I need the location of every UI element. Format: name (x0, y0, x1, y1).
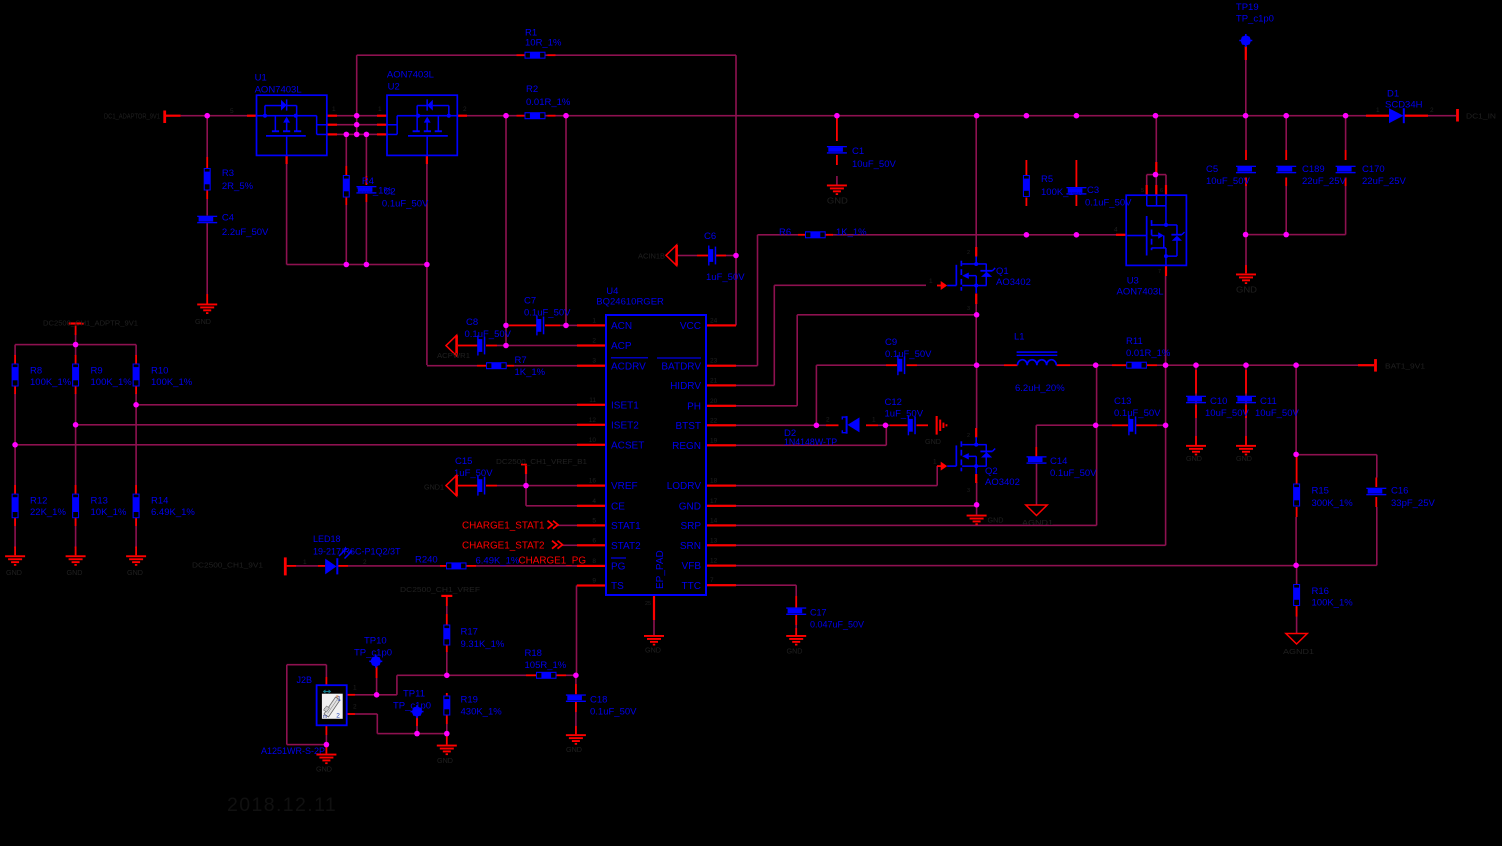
svg-text:0.1uF_50V: 0.1uF_50V (1050, 468, 1097, 479)
wire ACDRV row (427, 365, 477, 367)
svg-text:2: 2 (463, 106, 467, 113)
svg-text:17: 17 (710, 498, 718, 505)
svg-text:10R_1%: 10R_1% (525, 37, 562, 48)
wire SRP net (736, 525, 1097, 527)
svg-text:GND: GND (316, 765, 332, 774)
svg-text:EP_PAD: EP_PAD (655, 550, 666, 589)
svg-text:20: 20 (710, 398, 718, 405)
wire U1-U2 interconnect rows (337, 115, 377, 117)
wire HIDRV to Q1 gate (736, 385, 774, 387)
svg-text:1: 1 (929, 278, 933, 285)
wire red stubs R15 R16 C16 (1296, 457, 1298, 484)
wire ISET1 row (136, 404, 577, 406)
resistor R3 (204, 168, 211, 191)
wire red stubs C9 (886, 364, 897, 366)
svg-text:R18: R18 (525, 648, 542, 659)
port LED18 bar (284, 557, 287, 575)
wire BATDRV to R6 (736, 365, 758, 367)
svg-text:1uF_50V: 1uF_50V (454, 468, 493, 479)
port divider VREF (69, 322, 84, 324)
svg-text:C7: C7 (524, 296, 536, 307)
wire SRN net (736, 545, 1166, 547)
svg-text:U4: U4 (606, 286, 618, 297)
svg-text:R10: R10 (151, 365, 168, 376)
wire STAT2 lead (562, 545, 577, 547)
wire C9 bridge (816, 365, 818, 425)
wire red lead BAT port (1358, 364, 1374, 366)
svg-text:18: 18 (710, 478, 718, 485)
svg-text:14: 14 (710, 517, 718, 524)
ground AGND R16 (1286, 634, 1307, 645)
port DC IN (1456, 109, 1459, 122)
svg-text:J2B: J2B (297, 675, 313, 685)
wire red stubs C1 (836, 116, 838, 141)
svg-text:U3: U3 (1127, 275, 1139, 286)
resistor R10 (133, 364, 140, 387)
wire C189 branch (1285, 116, 1287, 150)
port ACIN1 arrow C6 (666, 245, 677, 266)
svg-text:U1: U1 (255, 73, 267, 84)
svg-text:R240: R240 (415, 554, 438, 565)
wire C13 row (1096, 425, 1112, 427)
wire red stubs R17 R19 (446, 614, 448, 625)
svg-text:4: 4 (592, 498, 596, 505)
svg-text:2: 2 (363, 559, 367, 566)
svg-text:1K_1%: 1K_1% (836, 227, 867, 238)
svg-text:C8: C8 (466, 317, 478, 328)
wire TP19 branch (1245, 46, 1247, 116)
capacitor C189 (1276, 166, 1296, 174)
wire ACP vertical from rail (505, 116, 507, 346)
resistor R240 (446, 562, 467, 569)
svg-text:GND: GND (6, 568, 22, 577)
svg-text:C5: C5 (1206, 164, 1218, 175)
wire TP11 stub (416, 715, 418, 734)
wire red stubs IC left (577, 324, 606, 326)
svg-text:C15: C15 (455, 456, 472, 467)
svg-text:C170: C170 (1362, 164, 1385, 175)
svg-text:AO3402: AO3402 (985, 477, 1020, 488)
capacitor C17 (786, 607, 806, 615)
svg-text:6.2uH_20%: 6.2uH_20% (1015, 383, 1065, 394)
svg-text:10: 10 (589, 437, 597, 444)
resistor R16 (1293, 584, 1300, 606)
wire red stubs L1 (1004, 364, 1018, 366)
svg-text:AON7403L: AON7403L (387, 69, 434, 80)
transistor U2 (387, 95, 457, 155)
svg-text:1N4148W-TP: 1N4148W-TP (784, 437, 837, 447)
svg-text:VFB: VFB (682, 561, 702, 572)
svg-text:0.01R_1%: 0.01R_1% (526, 97, 571, 108)
svg-text:GND: GND (787, 647, 803, 656)
ground C1 (827, 185, 847, 196)
svg-text:Q2: Q2 (985, 466, 998, 477)
ground C10 (1186, 445, 1206, 456)
wire TP10 stub (376, 666, 378, 694)
wire red stubs R6 (798, 234, 805, 236)
resistor R4 (343, 175, 350, 198)
svg-text:R11: R11 (1126, 336, 1143, 347)
wire PG row (296, 565, 318, 567)
wire red stubs D1 (1366, 115, 1389, 117)
svg-text:C3: C3 (1087, 185, 1099, 196)
svg-text:GND: GND (127, 568, 143, 577)
svg-text:C2: C2 (384, 186, 396, 197)
svg-text:22uF_25V: 22uF_25V (1362, 176, 1407, 187)
resistor R9 (72, 364, 79, 387)
wire red stubs C17 (795, 596, 797, 608)
wire R17 chain (446, 596, 448, 614)
svg-text:6.49K_1%: 6.49K_1% (476, 555, 520, 566)
wire U3 top bracket (1147, 174, 1166, 176)
svg-text:21: 21 (710, 377, 718, 384)
svg-text:CHARGE1_STAT1: CHARGE1_STAT1 (462, 521, 545, 532)
capacitor C4 (197, 216, 217, 224)
ground rotated C12 (936, 416, 948, 435)
wire red stubs R5 (1026, 160, 1028, 175)
wire R16 branch (1296, 565, 1298, 584)
wire C189 C170 gnd row (1246, 234, 1346, 236)
svg-text:U2: U2 (388, 81, 400, 92)
svg-text:8: 8 (592, 558, 596, 565)
capacitor C18 (566, 694, 586, 702)
wire J2B shield loop (287, 664, 327, 666)
svg-text:13: 13 (710, 537, 718, 544)
wire BTST row (736, 425, 826, 427)
svg-text:AGND1: AGND1 (1283, 647, 1314, 656)
svg-text:DC2500_CH1_9V1: DC2500_CH1_9V1 (192, 561, 263, 570)
wire Q2 drain (976, 365, 978, 428)
svg-text:1: 1 (337, 696, 341, 703)
ground R13 (66, 555, 86, 566)
wire ACP row (497, 345, 577, 347)
wire red stub VREF T (446, 596, 448, 606)
svg-text:430K_1%: 430K_1% (461, 706, 503, 717)
wire Q1 source to PH node (975, 304, 977, 315)
svg-text:R5: R5 (1041, 174, 1053, 185)
svg-text:CHARGE1_STAT2: CHARGE1_STAT2 (462, 541, 545, 552)
svg-text:GND: GND (827, 197, 848, 206)
wire ACN vertical from rail (565, 116, 567, 326)
svg-text:C18: C18 (590, 694, 607, 705)
svg-text:GND: GND (1186, 454, 1202, 463)
svg-text:0.1uF_50V: 0.1uF_50V (1114, 408, 1161, 419)
svg-text:m: m (323, 714, 328, 720)
wire red stubs TP19 (1245, 46, 1247, 60)
wire red stubs C10 (1195, 370, 1197, 394)
resistor R14 (133, 494, 140, 519)
ground C4 R3 (197, 304, 217, 315)
wire red stubs R8-R14 (14, 355, 16, 364)
svg-text:1: 1 (1376, 107, 1380, 114)
wire red stubs J2B (347, 694, 355, 696)
svg-text:DC1_IN: DC1_IN (1466, 112, 1496, 121)
svg-text:C4: C4 (222, 213, 234, 224)
wire TTC to C17 (736, 584, 796, 586)
svg-text:22: 22 (710, 417, 718, 424)
testpoint TP19 (1241, 36, 1251, 46)
svg-text:1uF_50V: 1uF_50V (885, 408, 924, 419)
svg-text:0.01R_1%: 0.01R_1% (1126, 348, 1171, 359)
svg-text:TS: TS (611, 581, 624, 592)
svg-text:L1: L1 (1014, 331, 1025, 342)
wire divider top rail (15, 344, 136, 346)
svg-text:2: 2 (353, 703, 357, 710)
svg-text:5: 5 (230, 108, 234, 115)
wire R1 top net (356, 55, 358, 134)
svg-text:C189: C189 (1302, 164, 1325, 175)
svg-text:3: 3 (967, 306, 970, 312)
svg-text:SCD34H: SCD34H (1385, 100, 1423, 111)
wire red stub divider port (75, 326, 77, 336)
resistor R5 (1023, 175, 1030, 197)
svg-text:2: 2 (826, 417, 830, 424)
svg-text:22K_1%: 22K_1% (30, 507, 66, 518)
svg-text:AO3402: AO3402 (996, 277, 1031, 288)
capacitor C6 (708, 246, 716, 266)
svg-text:GND: GND (566, 745, 582, 754)
svg-text:ACN: ACN (611, 321, 632, 332)
svg-text:ACSET: ACSET (611, 440, 644, 451)
svg-text:C1: C1 (852, 146, 864, 157)
svg-text:DC2500_CH1_VREF: DC2500_CH1_VREF (400, 585, 481, 594)
svg-text:2: 2 (336, 713, 340, 720)
capacitor C14 (1027, 456, 1047, 464)
wire red stubs main rail (166, 115, 181, 117)
capacitor C13 (1128, 415, 1136, 435)
svg-text:TP19: TP19 (1236, 2, 1259, 13)
svg-text:100K_1%: 100K_1% (151, 377, 193, 388)
resistor R6 (805, 231, 826, 238)
wire R4 branch (346, 134, 348, 166)
svg-text:300K_1%: 300K_1% (1312, 498, 1354, 509)
svg-text:TP11: TP11 (403, 688, 425, 699)
svg-text:24: 24 (710, 317, 718, 324)
svg-text:GND: GND (925, 437, 941, 446)
capacitor C15 (477, 476, 485, 496)
svg-text:R19: R19 (461, 694, 478, 705)
wire red stubs C8 (458, 345, 478, 347)
wire red stubs EP pad (653, 595, 655, 620)
wire red stubs D2 C12 (826, 424, 839, 426)
ground C18 (566, 734, 586, 745)
svg-text:GND: GND (988, 516, 1004, 525)
wire J2B pin2 row (355, 713, 377, 715)
wire C170 branch (1345, 116, 1347, 150)
svg-text:ACP: ACP (611, 341, 632, 352)
wire PH net (736, 405, 797, 407)
svg-text:19-217/R6C-P1Q2/3T: 19-217/R6C-P1Q2/3T (313, 547, 401, 557)
svg-text:ISET2: ISET2 (611, 420, 639, 431)
testpoint TP11 (412, 707, 422, 717)
svg-text:C14: C14 (1050, 456, 1067, 467)
svg-text:9: 9 (592, 578, 596, 585)
wire C14 to AGND (1036, 464, 1038, 506)
wire red stubs C14 (1035, 447, 1037, 457)
svg-text:1: 1 (933, 459, 937, 466)
svg-text:100K_1%: 100K_1% (91, 377, 133, 388)
resistor R2 (525, 112, 546, 119)
svg-text:R12: R12 (30, 495, 47, 506)
svg-text:22uF_25V: 22uF_25V (1302, 176, 1347, 187)
svg-text:R17: R17 (461, 627, 478, 638)
svg-text:6: 6 (592, 537, 596, 544)
wire STAT1 lead (557, 525, 577, 527)
wire red stubs LED row (287, 565, 296, 567)
wire red stubs C7 (509, 325, 537, 327)
capacitor C2 (356, 186, 376, 194)
svg-text:BQ24610RGER: BQ24610RGER (596, 296, 664, 307)
svg-text:3: 3 (967, 488, 970, 494)
ground C5 (1236, 274, 1256, 285)
wire C5 branch (1245, 116, 1247, 150)
svg-text:ACDRV: ACDRV (611, 361, 646, 372)
wire main input rail (181, 115, 247, 117)
svg-text:2.2uF_50V: 2.2uF_50V (222, 227, 269, 238)
wire red stubs U1 U2 gates (286, 155, 288, 164)
svg-text:GND: GND (1236, 286, 1257, 295)
wire red stubs Q1 (975, 247, 977, 257)
resistor R17 (443, 625, 450, 646)
svg-text:ACIN1B: ACIN1B (638, 251, 665, 260)
ground AGND C14 (1026, 505, 1047, 516)
svg-text:6: 6 (1160, 188, 1163, 194)
wire ISET2 row (76, 424, 577, 426)
wire C18 branch (575, 675, 577, 694)
svg-text:GND: GND (645, 646, 661, 655)
svg-text:GND: GND (679, 501, 701, 512)
svg-text:9.31K_1%: 9.31K_1% (461, 639, 505, 650)
svg-text:GND: GND (1236, 454, 1252, 463)
svg-text:STAT2: STAT2 (611, 541, 641, 552)
testpoint TP10 (371, 656, 381, 666)
svg-text:R14: R14 (151, 495, 168, 506)
junction dots (204, 113, 210, 119)
svg-text:1: 1 (353, 685, 357, 692)
svg-text:1: 1 (872, 417, 876, 424)
wire red stubs Q2 (975, 428, 977, 438)
ground R19 (437, 745, 457, 756)
wire VFB row (736, 565, 1296, 567)
svg-text:11: 11 (589, 397, 596, 404)
svg-text:2: 2 (967, 433, 970, 439)
wire red stubs R11 (1112, 364, 1126, 366)
svg-text:TTC: TTC (682, 581, 701, 592)
wire red stubs C15 (458, 485, 478, 487)
resistor R11 (1126, 362, 1147, 369)
capacitor C16 (1366, 488, 1386, 496)
capacitor C9 (897, 355, 905, 375)
port R17 top bar (441, 595, 452, 597)
svg-text:R16: R16 (1312, 586, 1329, 597)
svg-text:GND: GND (195, 317, 211, 326)
transistor Q1 (937, 257, 995, 294)
svg-text:R15: R15 (1312, 485, 1329, 496)
svg-text:BAT1_9V1: BAT1_9V1 (1385, 362, 1425, 371)
svg-text:C16: C16 (1391, 485, 1408, 496)
svg-text:C11: C11 (1260, 396, 1277, 407)
wire C10 branch (1195, 365, 1197, 445)
capacitor C1 (827, 146, 847, 154)
capacitor C7 (536, 315, 544, 335)
svg-text:GND: GND (67, 568, 83, 577)
port DC adapter input (163, 111, 166, 124)
wire red stubs C5 C189 C170 (1245, 150, 1247, 160)
svg-text:2: 2 (967, 250, 970, 256)
wire TS net (576, 585, 579, 587)
diode D2 (842, 416, 859, 434)
ground J2B (316, 754, 336, 765)
svg-text:23: 23 (710, 358, 718, 365)
resistor R13 (72, 494, 79, 519)
capacitor C5 (1236, 166, 1256, 174)
svg-text:ACPWR1: ACPWR1 (437, 351, 470, 360)
wire red stubs R1 (517, 54, 525, 56)
svg-text:LED18: LED18 (313, 534, 341, 544)
svg-text:1uF_50V: 1uF_50V (706, 272, 745, 283)
svg-text:C6: C6 (704, 231, 716, 242)
svg-text:100K_1%: 100K_1% (30, 377, 72, 388)
svg-text:SRN: SRN (680, 541, 701, 552)
svg-text:STAT1: STAT1 (611, 521, 641, 532)
ground Q2 (967, 515, 987, 526)
port ACIN1 arrow (446, 335, 457, 356)
wire LODRV to Q2 gate (736, 485, 937, 487)
svg-text:0.1uF_50V: 0.1uF_50V (1085, 197, 1132, 208)
wire red stubs C18 (575, 684, 577, 694)
wire VCC vertical (735, 55, 737, 325)
svg-text:TP_c1p0: TP_c1p0 (393, 700, 431, 711)
svg-text:D1: D1 (1387, 88, 1399, 99)
svg-text:PH: PH (687, 401, 701, 412)
capacitor C11 (1236, 396, 1256, 404)
svg-text:16: 16 (589, 478, 597, 485)
ground C17 (786, 635, 806, 646)
wire red stubs C3 (1076, 160, 1078, 187)
transistor U1 (257, 95, 327, 155)
port BAT (1374, 359, 1377, 372)
svg-text:R8: R8 (30, 365, 42, 376)
wire ACSET row (15, 444, 577, 446)
svg-text:TP_c1p0: TP_c1p0 (354, 647, 392, 658)
svg-text:TP_c1p0: TP_c1p0 (1236, 14, 1274, 25)
wire EP_PAD stub (653, 620, 655, 635)
svg-text:VREF: VREF (611, 481, 638, 492)
wire red stubs TP10 TP11 (376, 666, 378, 678)
wire REGN row (736, 445, 886, 447)
svg-text:2: 2 (592, 338, 596, 345)
wire red stubs U3 (1146, 185, 1148, 195)
svg-text:10uF_50V: 10uF_50V (852, 159, 897, 170)
wire red stubs R18 (526, 674, 536, 676)
wire divider chains (14, 345, 16, 356)
svg-text:BATDRV: BATDRV (661, 361, 701, 372)
svg-text:Q1: Q1 (996, 266, 1009, 277)
wire red stubs IC right (706, 324, 736, 326)
svg-text:R6: R6 (779, 227, 791, 238)
capacitor C8 (477, 336, 485, 356)
connector J2B (317, 685, 347, 725)
diode LED18 (325, 548, 352, 575)
svg-text:25: 25 (645, 601, 651, 607)
svg-text:0.047uF_50V: 0.047uF_50V (810, 619, 864, 629)
svg-text:DC2500_CH1_ADPTR_9V1: DC2500_CH1_ADPTR_9V1 (43, 319, 138, 328)
transistor U3 (1126, 195, 1186, 265)
svg-text:CHARGE1_PG: CHARGE1_PG (519, 556, 587, 567)
wire C6 lead (677, 255, 697, 257)
wire VREF label stem (525, 474, 527, 486)
svg-text:7: 7 (1158, 269, 1161, 275)
